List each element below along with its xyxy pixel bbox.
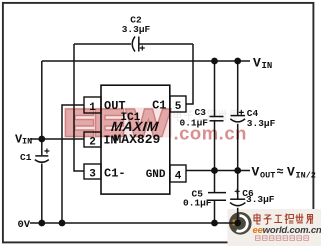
wire 0V rail bbox=[30, 222, 238, 224]
capacitor C2 bbox=[132, 37, 145, 52]
wire VIN left vertical upper bbox=[41, 61, 43, 155]
svg-text:IN/2: IN/2 bbox=[296, 171, 316, 181]
wire VOUT rail bbox=[186, 170, 250, 172]
svg-text:GND: GND bbox=[146, 169, 166, 181]
node VOUT junction C5 bbox=[211, 167, 218, 174]
wire C5 branch bbox=[214, 171, 216, 193]
node VIN rail junction C4 bbox=[234, 58, 241, 65]
capacitor C5 bbox=[208, 193, 226, 201]
svg-text:2: 2 bbox=[89, 137, 96, 149]
watermark letter E bbox=[96, 109, 124, 137]
svg-text:0.1µF: 0.1µF bbox=[183, 198, 212, 209]
svg-text:≈: ≈ bbox=[277, 165, 284, 179]
svg-text:V: V bbox=[253, 56, 261, 71]
pin 1 box bbox=[84, 97, 101, 113]
pin 5 box bbox=[170, 96, 186, 112]
op IC body MAX829 U1 bbox=[101, 85, 170, 194]
wire C2 top left bbox=[74, 43, 131, 45]
wire pin1 OUT down to 0V bbox=[62, 105, 84, 223]
wire VIN left to pin2 bbox=[30, 138, 84, 140]
svg-text:3.3µF: 3.3µF bbox=[122, 24, 151, 35]
node VIN left junction bbox=[38, 136, 45, 143]
capacitor C4 bbox=[230, 110, 245, 122]
svg-text:3: 3 bbox=[89, 169, 96, 181]
wire C3 branch bbox=[214, 61, 216, 116]
wire C4 branch bbox=[237, 61, 239, 115]
logo circle bbox=[229, 212, 252, 235]
svg-text:C1: C1 bbox=[20, 152, 32, 163]
svg-text:4: 4 bbox=[175, 171, 182, 183]
svg-text:IN: IN bbox=[22, 137, 32, 147]
eeworld logo panel bbox=[228, 209, 321, 246]
node VIN rail junction C3 bbox=[211, 58, 218, 65]
pin 3 box bbox=[84, 164, 101, 179]
svg-text:5: 5 bbox=[175, 101, 182, 113]
node 0V junction C6 bbox=[234, 220, 241, 227]
watermark letter E bbox=[66, 109, 94, 137]
faint grey watermark bbox=[174, 110, 237, 122]
logo tiny slogan bbox=[256, 236, 309, 241]
svg-text:eeworld.com.cn: eeworld.com.cn bbox=[253, 225, 321, 236]
svg-text:C1-: C1- bbox=[104, 167, 126, 181]
svg-text:OUT: OUT bbox=[260, 171, 275, 181]
node 0V junction OUT bbox=[59, 220, 66, 227]
wire C2 top right bbox=[139, 43, 194, 45]
wire C2 down to pin5 bbox=[186, 44, 193, 104]
pin 4 box bbox=[170, 165, 186, 182]
node VOUT junction C6 bbox=[234, 167, 241, 174]
capacitor C3 bbox=[210, 117, 224, 121]
svg-text:V: V bbox=[252, 165, 260, 180]
svg-text:0V: 0V bbox=[18, 219, 31, 231]
svg-text:V: V bbox=[287, 165, 295, 180]
watermark letter W bbox=[126, 109, 172, 137]
capacitor C1 bbox=[35, 149, 50, 163]
wire VIN top rail bbox=[42, 60, 250, 62]
EEW watermark band bbox=[64, 108, 247, 144]
node 0V junction C5 bbox=[211, 220, 218, 227]
capacitor C6 bbox=[230, 189, 245, 206]
svg-text:3.3µF: 3.3µF bbox=[246, 194, 275, 205]
svg-text:3.3µF: 3.3µF bbox=[247, 118, 276, 129]
wire C6 branch bbox=[237, 171, 239, 199]
node 0V junction C1 bbox=[38, 220, 45, 227]
wire vertical to pin3 (C1-) bbox=[74, 44, 84, 171]
svg-text:.com.cn: .com.cn bbox=[174, 123, 247, 144]
logo text chinese bbox=[254, 214, 313, 225]
wire C1 bottom to 0V bbox=[41, 164, 43, 224]
pin 2 box bbox=[84, 132, 101, 147]
svg-text:IN: IN bbox=[262, 61, 273, 71]
